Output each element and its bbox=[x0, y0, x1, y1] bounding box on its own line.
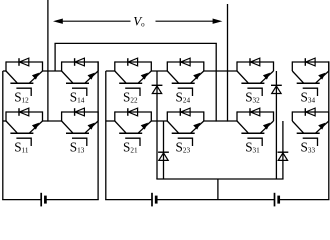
IGBT S22 gate lead bracket bbox=[125, 88, 140, 96]
anti-parallel diode of S12 cathode bar bbox=[18, 58, 20, 66]
anti-parallel diode of S11 cathode bar bbox=[18, 108, 20, 116]
IGBT S13 gate lead bracket bbox=[72, 138, 87, 146]
node Vo+ left output rail bbox=[47, 0, 49, 122]
diode D21 triangle bbox=[152, 86, 161, 94]
wire top link horizontal bbox=[54, 42, 216, 44]
IGBT S14 emitter arrow bbox=[88, 73, 95, 80]
IGBT S33 base bar bbox=[297, 132, 320, 134]
anti-parallel diode of S14 triangle bbox=[75, 58, 84, 66]
IGBT S23 collector slant bbox=[167, 121, 178, 133]
anti-parallel diode of S31 cathode bar bbox=[249, 108, 251, 116]
diode D32 cathode bar bbox=[278, 151, 289, 153]
wire bridge1 right edge bbox=[97, 61, 99, 199]
IGBT S11 emitter arrow bbox=[32, 123, 39, 130]
wire S21 left stub bbox=[106, 120, 115, 122]
svg-text:S21: S21 bbox=[123, 140, 138, 155]
wire clamp line D22 bbox=[163, 121, 165, 179]
anti-parallel diode of S13 triangle bbox=[75, 108, 84, 116]
IGBT S13 collector slant bbox=[62, 121, 73, 133]
svg-text:S32: S32 bbox=[245, 90, 260, 105]
wire bridge3 right edge bbox=[328, 61, 330, 199]
IGBT S24 gate lead bracket bbox=[178, 88, 193, 96]
IGBT S23 right terminal edge bbox=[203, 111, 205, 121]
anti-parallel diode of S12 triangle bbox=[19, 58, 28, 66]
wire clamp line D31 bbox=[275, 71, 277, 179]
wire bridge3 bottom right bbox=[279, 199, 330, 201]
wire bridge2 bottom left bbox=[105, 199, 152, 201]
IGBT S11 base bar bbox=[10, 132, 33, 134]
wire node B2 (S21-S23 midpoint) bbox=[151, 120, 167, 122]
IGBT S31 emitter slant bbox=[260, 121, 273, 133]
IGBT S22 left terminal edge bbox=[114, 61, 116, 71]
anti-parallel diode of S33 cathode bar bbox=[304, 108, 306, 116]
IGBT S11 left terminal edge bbox=[5, 111, 7, 121]
IGBT S34 emitter slant bbox=[316, 71, 329, 83]
IGBT S32 emitter arrow bbox=[263, 73, 270, 80]
anti-parallel diode of S22 cathode bar bbox=[127, 58, 129, 66]
IGBT S31 left terminal edge bbox=[236, 111, 238, 121]
IGBT S11 right terminal edge bbox=[42, 111, 44, 121]
anti-parallel diode of S21 triangle bbox=[128, 108, 137, 116]
IGBT S13 collector/emitter top wire bbox=[62, 111, 99, 113]
IGBT S31 collector/emitter top wire bbox=[237, 111, 274, 113]
anti-parallel diode of S23 triangle bbox=[181, 108, 190, 116]
IGBT S22 emitter arrow bbox=[141, 73, 148, 80]
IGBT S14 collector slant bbox=[62, 71, 73, 83]
wire bridge2-3 bottom middle bbox=[156, 199, 274, 201]
wire bridge2 left edge bbox=[105, 71, 107, 200]
IGBT S34 emitter arrow bbox=[318, 73, 325, 80]
IGBT S31 emitter arrow bbox=[263, 123, 270, 130]
IGBT S11 collector slant bbox=[6, 121, 17, 133]
IGBT S12 left terminal edge bbox=[5, 61, 7, 71]
IGBT S31 gate lead bracket bbox=[247, 138, 262, 146]
anti-parallel diode of S34 cathode bar bbox=[304, 58, 306, 66]
IGBT S12 emitter slant bbox=[29, 71, 42, 83]
svg-text:S24: S24 bbox=[176, 90, 191, 105]
IGBT S34 left terminal edge bbox=[291, 61, 293, 71]
IGBT S21 base bar bbox=[119, 132, 142, 134]
svg-text:S31: S31 bbox=[245, 140, 260, 155]
IGBT S23 left terminal edge bbox=[166, 111, 168, 121]
battery E1 positive plate (long) bbox=[40, 193, 42, 207]
wire node B1 (S11-S13 midpoint) bbox=[43, 120, 62, 122]
IGBT S21 gate lead bracket bbox=[125, 138, 140, 146]
IGBT S13 right terminal edge bbox=[97, 111, 99, 121]
IGBT S31 right terminal edge bbox=[273, 111, 275, 121]
anti-parallel diode of S14 cathode bar bbox=[74, 58, 76, 66]
IGBT S13 emitter slant bbox=[85, 121, 98, 133]
IGBT S23 collector/emitter top wire bbox=[167, 111, 204, 113]
IGBT S12 right terminal edge bbox=[42, 61, 44, 71]
IGBT S13 emitter arrow bbox=[88, 123, 95, 130]
IGBT S13 left terminal edge bbox=[61, 111, 63, 121]
svg-text:Vo: Vo bbox=[133, 14, 145, 29]
anti-parallel diode of S24 cathode bar bbox=[179, 58, 181, 66]
svg-text:S22: S22 bbox=[123, 90, 138, 105]
IGBT S31 collector slant bbox=[237, 121, 248, 133]
IGBT S12 collector slant bbox=[6, 71, 17, 83]
wire S11 left stub bbox=[3, 120, 6, 122]
anti-parallel diode of S32 cathode bar bbox=[249, 58, 251, 66]
svg-text:S23: S23 bbox=[176, 140, 191, 155]
IGBT S21 emitter arrow bbox=[141, 123, 148, 130]
IGBT S21 emitter slant bbox=[138, 121, 151, 133]
anti-parallel diode of S31 triangle bbox=[250, 108, 259, 116]
anti-parallel diode of S11 triangle bbox=[19, 108, 28, 116]
IGBT S24 collector slant bbox=[167, 71, 178, 83]
IGBT S32 emitter slant bbox=[260, 71, 273, 83]
svg-text:S13: S13 bbox=[70, 140, 85, 155]
IGBT S11 gate lead bracket bbox=[16, 138, 31, 146]
anti-parallel diode of S21 cathode bar bbox=[127, 108, 129, 116]
IGBT S34 right terminal edge bbox=[328, 61, 330, 71]
anti-parallel diode of S33 triangle bbox=[306, 108, 315, 116]
wire S12 left stub bbox=[3, 70, 6, 72]
IGBT S23 emitter arrow bbox=[193, 123, 200, 130]
IGBT S22 emitter slant bbox=[138, 71, 151, 83]
IGBT S33 right terminal edge bbox=[328, 111, 330, 121]
Vo dimension line right segment bbox=[156, 20, 214, 22]
IGBT S11 emitter slant bbox=[29, 121, 42, 133]
wire bridge1 bottom left bbox=[2, 199, 41, 201]
IGBT S14 emitter slant bbox=[85, 71, 98, 83]
wire clamp bus riser bbox=[217, 179, 219, 200]
IGBT S34 collector slant bbox=[292, 71, 303, 83]
diode D31 triangle bbox=[272, 86, 281, 94]
battery E3 negative plate (short) bbox=[277, 196, 280, 204]
Vo dimension line left segment bbox=[62, 20, 131, 22]
wire node A1 (S12-S14 midpoint) bbox=[43, 70, 62, 72]
anti-parallel diode of S24 triangle bbox=[181, 58, 190, 66]
IGBT S13 base bar bbox=[66, 132, 89, 134]
anti-parallel diode of S22 triangle bbox=[128, 58, 137, 66]
battery E3 positive plate (long) bbox=[274, 193, 276, 207]
IGBT S24 emitter arrow bbox=[193, 73, 200, 80]
IGBT S34 gate lead bracket bbox=[303, 88, 318, 96]
IGBT S33 left terminal edge bbox=[291, 111, 293, 121]
IGBT S33 collector/emitter top wire bbox=[292, 111, 329, 113]
wire S22 left stub bbox=[106, 70, 115, 72]
IGBT S22 right terminal edge bbox=[150, 61, 152, 71]
svg-text:S14: S14 bbox=[70, 90, 85, 105]
IGBT S32 collector/emitter top wire bbox=[237, 61, 274, 63]
IGBT S32 right terminal edge bbox=[273, 61, 275, 71]
IGBT S24 right terminal edge bbox=[203, 61, 205, 71]
IGBT S24 left terminal edge bbox=[166, 61, 168, 71]
anti-parallel diode of S32 triangle bbox=[250, 58, 259, 66]
diode D21 cathode bar bbox=[152, 84, 163, 86]
svg-text:S12: S12 bbox=[14, 90, 29, 105]
IGBT S23 gate lead bracket bbox=[178, 138, 193, 146]
diode D32 triangle bbox=[278, 153, 287, 161]
IGBT S14 gate lead bracket bbox=[72, 88, 87, 96]
IGBT S12 base bar bbox=[10, 82, 33, 84]
wire top link right drop bbox=[215, 43, 217, 121]
IGBT S24 base bar bbox=[172, 82, 195, 84]
svg-text:S33: S33 bbox=[301, 140, 316, 155]
IGBT S21 left terminal edge bbox=[114, 111, 116, 121]
diode D31 cathode bar bbox=[271, 84, 282, 86]
IGBT S33 emitter arrow bbox=[318, 123, 325, 130]
IGBT S22 collector/emitter top wire bbox=[115, 61, 152, 63]
IGBT S14 collector/emitter top wire bbox=[62, 61, 99, 63]
IGBT S22 base bar bbox=[119, 82, 142, 84]
IGBT S12 emitter arrow bbox=[32, 73, 39, 80]
anti-parallel diode of S13 cathode bar bbox=[74, 108, 76, 116]
wire bridge1 left edge bbox=[2, 71, 4, 200]
IGBT S31 base bar bbox=[241, 132, 264, 134]
IGBT S21 collector/emitter top wire bbox=[115, 111, 152, 113]
wire node A2 (S22-S24 midpoint) bbox=[151, 70, 167, 72]
Vo dimension left arrowhead bbox=[53, 19, 63, 24]
IGBT S32 left terminal edge bbox=[236, 61, 238, 71]
battery E2 negative plate (short) bbox=[155, 196, 158, 204]
IGBT S14 left terminal edge bbox=[61, 61, 63, 71]
IGBT S14 right terminal edge bbox=[97, 61, 99, 71]
IGBT S33 collector slant bbox=[292, 121, 303, 133]
IGBT S33 emitter slant bbox=[316, 121, 329, 133]
anti-parallel diode of S23 cathode bar bbox=[179, 108, 181, 116]
wire top link left drop bbox=[54, 43, 56, 71]
IGBT S23 emitter slant bbox=[191, 121, 204, 133]
IGBT S12 collector/emitter top wire bbox=[6, 61, 43, 63]
node Vo- right output rail bbox=[227, 4, 229, 122]
svg-text:S11: S11 bbox=[14, 140, 29, 155]
svg-text:S34: S34 bbox=[301, 90, 316, 105]
Vo dimension right arrowhead bbox=[213, 19, 223, 24]
wire clamp line D32 bbox=[282, 121, 284, 179]
IGBT S11 collector/emitter top wire bbox=[6, 111, 43, 113]
IGBT S32 base bar bbox=[241, 82, 264, 84]
IGBT S23 base bar bbox=[172, 132, 195, 134]
wire clamp return bus bbox=[156, 178, 283, 180]
IGBT S34 collector/emitter top wire bbox=[292, 61, 329, 63]
battery E2 positive plate (long) bbox=[151, 193, 153, 207]
IGBT S21 right terminal edge bbox=[150, 111, 152, 121]
IGBT S12 gate lead bracket bbox=[16, 88, 31, 96]
IGBT S24 collector/emitter top wire bbox=[167, 61, 204, 63]
IGBT S32 gate lead bracket bbox=[247, 88, 262, 96]
diode D22 triangle bbox=[159, 153, 168, 161]
battery E1 negative plate (short) bbox=[44, 196, 47, 204]
wire clamp line D21 bbox=[156, 71, 158, 179]
IGBT S21 collector slant bbox=[115, 121, 126, 133]
IGBT S33 gate lead bracket bbox=[303, 138, 318, 146]
IGBT S34 base bar bbox=[297, 82, 320, 84]
diode D22 cathode bar bbox=[158, 151, 169, 153]
wire bridge2-3 bottom midpoint link bbox=[204, 120, 237, 122]
IGBT S14 base bar bbox=[66, 82, 89, 84]
IGBT S24 emitter slant bbox=[191, 71, 204, 83]
wire bridge2-3 top midpoint link bbox=[204, 70, 237, 72]
wire bridge1 bottom right bbox=[45, 199, 98, 201]
IGBT S32 collector slant bbox=[237, 71, 248, 83]
anti-parallel diode of S34 triangle bbox=[306, 58, 315, 66]
IGBT S22 collector slant bbox=[115, 71, 126, 83]
